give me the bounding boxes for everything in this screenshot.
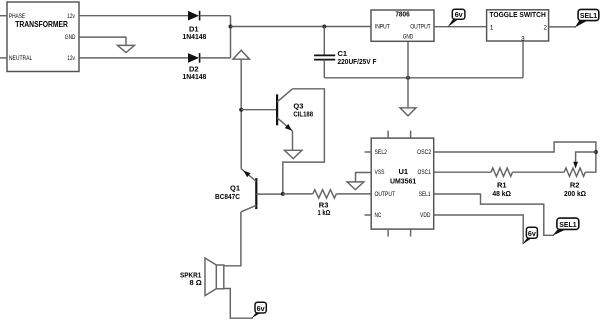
svg-text:VDD: VDD bbox=[420, 212, 431, 219]
diode D1 bbox=[183, 11, 207, 41]
wire U1 VDD to flag bbox=[434, 215, 524, 244]
wire 7806 output to toggle bbox=[434, 26, 487, 28]
svg-text:VSS: VSS bbox=[375, 169, 385, 176]
junction dot rectifier bbox=[229, 25, 233, 29]
svg-text:PHASE: PHASE bbox=[9, 13, 25, 20]
wire U1 OSC1 to R1 bbox=[434, 171, 491, 173]
wire toggle pin2 bbox=[549, 26, 576, 28]
flag 6v (7806 output) bbox=[447, 9, 465, 27]
wire D2 cathode bbox=[200, 57, 231, 59]
svg-text:48 kΩ: 48 kΩ bbox=[492, 189, 511, 198]
flag SEL1 (toggle) bbox=[575, 9, 599, 27]
transistor Q1 bbox=[215, 168, 256, 212]
wire neutral to D2 bbox=[79, 57, 188, 59]
wire Q1 collector to speaker bbox=[224, 212, 241, 266]
flag 6v (speaker) bbox=[251, 302, 266, 318]
flag SEL1 (U1) bbox=[553, 218, 579, 236]
wire transformer GND bbox=[79, 37, 126, 45]
capacitor C1 bbox=[314, 27, 377, 78]
potentiometer R2 bbox=[564, 168, 586, 198]
wire U1 OSC2 loop bbox=[434, 142, 596, 172]
wire ground bus bottom bbox=[324, 77, 523, 79]
svg-text:1N4148: 1N4148 bbox=[183, 32, 207, 41]
svg-text:SEL1: SEL1 bbox=[419, 191, 431, 198]
svg-text:2: 2 bbox=[544, 24, 548, 31]
svg-text:U1: U1 bbox=[399, 167, 409, 176]
ground (7806) bbox=[400, 108, 416, 116]
wire toggle pin3 to ground bus bbox=[522, 41, 524, 78]
wire 7806 gnd pin bbox=[407, 41, 409, 107]
svg-text:UM3561: UM3561 bbox=[390, 177, 416, 186]
svg-text:TOGGLE SWITCH: TOGGLE SWITCH bbox=[489, 10, 545, 19]
svg-text:SEL1: SEL1 bbox=[559, 220, 576, 229]
svg-text:OSC1: OSC1 bbox=[418, 169, 432, 176]
ground (transformer) bbox=[118, 45, 135, 52]
svg-text:6v: 6v bbox=[257, 304, 265, 313]
svg-text:220UF/25V F: 220UF/25V F bbox=[338, 57, 377, 66]
regulator U2 7806 bbox=[371, 10, 434, 42]
junction dot R2 top bbox=[594, 150, 598, 154]
svg-text:1N4148: 1N4148 bbox=[183, 72, 207, 81]
wire R3 to U1 OUTPUT bbox=[336, 193, 371, 195]
svg-text:12v: 12v bbox=[67, 13, 75, 20]
wire Q3 emitter down bbox=[292, 131, 294, 150]
wire rectifier to 7806 input bbox=[231, 26, 372, 28]
switch S1 TOGGLE SWITCH bbox=[487, 10, 549, 43]
transistor Q3 bbox=[277, 89, 313, 131]
svg-text:OSC2: OSC2 bbox=[417, 149, 432, 156]
svg-text:CIL188: CIL188 bbox=[293, 110, 313, 119]
svg-text:SEL1: SEL1 bbox=[580, 11, 597, 20]
svg-text:INPUT: INPUT bbox=[375, 23, 390, 30]
power arrow node VSS (down) bbox=[347, 182, 364, 190]
flag 6v (U1 VDD) bbox=[522, 227, 537, 244]
pin stub U1 top 1 bbox=[387, 131, 389, 139]
wire U1 VSS to arrow bbox=[356, 173, 372, 182]
svg-text:12v: 12v bbox=[67, 55, 75, 62]
junction dot C1 top bbox=[322, 25, 326, 29]
svg-text:OUTPUT: OUTPUT bbox=[375, 191, 396, 198]
pin stub U1 bottom 2 bbox=[410, 229, 412, 237]
svg-text:BC847C: BC847C bbox=[215, 192, 241, 201]
wire Q3 base bbox=[241, 109, 276, 111]
wire rectifier join vertical bbox=[230, 16, 232, 58]
transformer T1 bbox=[7, 2, 79, 72]
wire U1 SEL1 to flag bbox=[434, 194, 554, 235]
pin stub U1 SEL2 bbox=[365, 151, 372, 153]
svg-text:6v: 6v bbox=[455, 10, 463, 19]
svg-text:NC: NC bbox=[375, 212, 382, 219]
svg-text:GND: GND bbox=[403, 34, 414, 41]
svg-text:200 kΩ: 200 kΩ bbox=[564, 189, 586, 198]
resistor R3 bbox=[313, 190, 337, 217]
wire neutral stub left bbox=[0, 57, 7, 59]
wiper arrowhead R2 bbox=[573, 162, 578, 169]
svg-text:OUTPUT: OUTPUT bbox=[410, 23, 431, 30]
svg-text:SEL2: SEL2 bbox=[375, 149, 388, 156]
wire Q1 base bbox=[256, 193, 283, 195]
pin stub U1 bottom 1 bbox=[387, 229, 389, 237]
svg-text:TRANSFORMER: TRANSFORMER bbox=[15, 20, 68, 29]
pin stub U1 top 2 bbox=[410, 131, 412, 139]
junction dot Q3 base bbox=[239, 108, 243, 112]
resistor R1 bbox=[491, 168, 512, 198]
wire speaker bottom to 6v flag bbox=[224, 289, 253, 319]
speaker SPKR1 bbox=[180, 258, 224, 296]
wire phase to D1 bbox=[79, 15, 188, 17]
wire node to R3 bbox=[283, 193, 313, 195]
wire R1 to R2 bbox=[513, 171, 565, 173]
wire arrow down to Q3 base / Q1 emitter bbox=[240, 59, 242, 168]
diode D2 bbox=[183, 53, 207, 81]
svg-text:7806: 7806 bbox=[395, 10, 409, 19]
pin stub U1 NC bbox=[365, 214, 372, 216]
wire R2 wiper bbox=[576, 152, 596, 162]
power arrow node (up) bbox=[233, 50, 250, 59]
wire Q3 collector loop bbox=[283, 89, 325, 194]
svg-text:1: 1 bbox=[490, 24, 494, 31]
svg-text:GND: GND bbox=[65, 34, 76, 41]
ground (Q3 emitter) bbox=[285, 150, 302, 158]
IC U1 UM3561 bbox=[371, 138, 434, 229]
junction dot 7806 gnd bbox=[406, 76, 410, 80]
svg-text:1 kΩ: 1 kΩ bbox=[318, 208, 331, 217]
svg-text:6v: 6v bbox=[528, 229, 536, 238]
junction dot Q1 base node bbox=[281, 192, 285, 196]
wire D1 cathode bbox=[200, 15, 231, 17]
svg-text:NEUTRAL: NEUTRAL bbox=[9, 55, 33, 62]
wire phase stub left bbox=[0, 15, 7, 17]
svg-text:8 Ω: 8 Ω bbox=[189, 278, 201, 287]
